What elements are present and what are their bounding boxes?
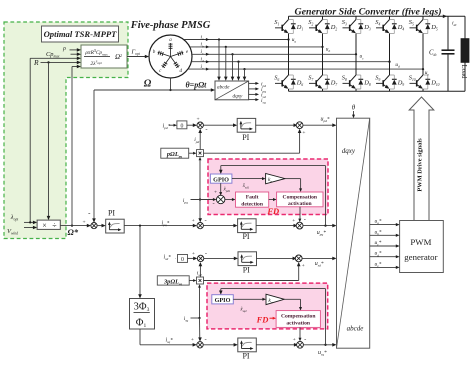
svg-text:+: + <box>302 263 305 269</box>
svg-text:x̂sq2: x̂sq2 <box>239 307 247 313</box>
wire i_pq into multiplier M1 <box>199 157 202 200</box>
node Gamma_opt torque command <box>127 49 149 59</box>
wire u_sq tap into GPIO2 <box>219 289 326 345</box>
svg-text:-: - <box>304 336 306 343</box>
resistor Load <box>460 16 469 91</box>
svg-text:PWM: PWM <box>410 237 431 247</box>
block zero reference (pd) <box>169 121 197 129</box>
wire i_pq into FD1 <box>183 198 217 205</box>
node i_sq feedback <box>184 316 202 342</box>
node u_a* converter voltage reference <box>370 219 400 227</box>
node u_c* converter voltage reference <box>370 240 400 248</box>
node Five-phase PMSG title <box>130 20 211 31</box>
wire i_pq feedback down <box>198 198 202 222</box>
junction pd decoupling sum <box>256 122 306 136</box>
transistor S4 with diode D4 (leg 4 top) <box>375 16 404 33</box>
node theta input to T2 <box>352 104 356 119</box>
transistor S5 with diode D5 (leg 5 top) <box>409 16 438 33</box>
svg-text:GPIO: GPIO <box>215 297 231 304</box>
block decoupling gain 3p*Omega*L_sq <box>157 276 196 286</box>
svg-text:x̂sd1: x̂sd1 <box>242 184 250 190</box>
node u_pq* voltage reference <box>303 224 337 237</box>
transistor S2 with diode D2 (leg 2 top) <box>308 16 337 33</box>
junction sq compensation sum <box>256 336 306 348</box>
node Omega* optimal speed <box>60 224 91 237</box>
svg-text:+: + <box>192 251 195 257</box>
svg-text:activation: activation <box>286 321 311 327</box>
wire phase current i_e <box>188 64 423 71</box>
wire i_a tap into T1 <box>217 40 221 81</box>
generator G1 five-phase PMSG machine <box>149 35 192 78</box>
node i_dc label <box>452 20 457 27</box>
wire DC+ top rail <box>289 15 466 19</box>
controller PI5 (i_sq) <box>203 338 256 360</box>
node u_sq* voltage reference <box>303 343 336 357</box>
svg-text:Fault: Fault <box>246 195 259 201</box>
block torque formula (rho*pi*R^5*Cpmax/2*lambda_opt^3 * Omega^2) <box>81 45 127 68</box>
observer GPIO2 <box>212 295 234 304</box>
wire k_a output to compensation 2 <box>284 299 302 310</box>
wire compensation 1 to pq sum <box>298 207 301 222</box>
svg-text:-: - <box>205 250 207 257</box>
node rho input <box>62 46 81 52</box>
gain k_a <box>233 294 284 313</box>
junction pd error sum <box>196 117 207 134</box>
transistor S8 with diode D8 (leg 3 bottom) <box>342 75 371 92</box>
block T2 dqxy to abcde voltage transformation <box>337 118 370 348</box>
block decoupling gain p*Omega*L_pq <box>161 148 197 158</box>
controller PI1 (speed) <box>97 209 124 233</box>
wire i_sd feedback <box>197 262 202 277</box>
svg-text:Compensation: Compensation <box>281 313 316 319</box>
svg-text:abcde: abcde <box>347 325 364 333</box>
block zero reference (sd) <box>176 255 198 263</box>
svg-text:Five-phase PMSG: Five-phase PMSG <box>130 20 211 31</box>
node u_pd* voltage reference <box>303 116 337 127</box>
junction pq error sum <box>192 217 207 228</box>
wire Omega* feed up to formula <box>71 65 81 227</box>
wire i_sq into multiplier M2 <box>198 284 201 318</box>
wire i_b tap into T1 <box>224 47 228 81</box>
block PWM generator <box>400 221 444 273</box>
node PWM Drive signals block arrow <box>409 97 434 221</box>
wire rotor speed output <box>169 78 171 91</box>
svg-text:PI: PI <box>108 209 115 218</box>
node i_pq measured current output <box>249 87 267 94</box>
svg-text:x̂pd1: x̂pd1 <box>223 187 231 193</box>
svg-text:0: 0 <box>181 257 184 263</box>
node fault-tolerance zone FD2 <box>207 283 328 329</box>
node FD1 label <box>266 206 279 216</box>
node u_sd* voltage reference <box>302 257 336 268</box>
svg-text:PI: PI <box>242 351 249 360</box>
gain k_p <box>232 173 285 189</box>
wire leg 5 midpoint / node u_e <box>422 34 430 77</box>
wire phase current i_c <box>192 49 356 56</box>
wire compensation 2 to sq sum <box>299 327 302 341</box>
wire decoupling term to sd sum <box>204 262 301 281</box>
node Generator Side Converter title <box>294 7 441 18</box>
junction speed error sum <box>82 209 97 229</box>
svg-text:Optimal TSR-MPPT: Optimal TSR-MPPT <box>44 29 118 39</box>
wire phase current i_a <box>184 34 289 41</box>
svg-text:θ=pΩt: θ=pΩt <box>186 81 208 90</box>
node Optimal TSR-MPPT title <box>42 26 119 42</box>
svg-text:+: + <box>196 117 199 123</box>
transistor S1 with diode D1 (leg 1 top) <box>274 16 303 33</box>
wire i_e tap into T1 <box>243 69 247 81</box>
wire leg 3 midpoint / node u_c <box>355 34 364 76</box>
wire x_hat estimate to sum <box>214 183 231 196</box>
node i_sd* reference <box>164 255 172 262</box>
node i_sq measured current output <box>249 98 266 105</box>
svg-text:dqxy: dqxy <box>342 147 356 155</box>
svg-text:activation: activation <box>288 201 313 207</box>
junction sq error sum <box>191 336 207 348</box>
multiplier M1 <box>197 150 204 157</box>
wire phase current i_d <box>191 57 389 64</box>
node Omega label <box>144 79 152 90</box>
svg-text:-: - <box>205 336 207 343</box>
node MPPT region (Optimal TSR-MPPT zone) <box>4 22 128 239</box>
node theta=p*Omega*t label <box>186 81 208 90</box>
svg-text:PI: PI <box>243 265 250 274</box>
controller PI3 (i_pq) <box>203 219 256 241</box>
block T1 abcde to dqxy current transformation <box>215 81 249 100</box>
svg-text:abcde: abcde <box>217 85 230 91</box>
junction sd error sum <box>192 250 207 261</box>
node Cp_max input <box>46 51 81 59</box>
wire k_p output to compensation <box>285 179 302 192</box>
wire decoupling term to pd sum <box>204 129 302 153</box>
svg-text:uc*: uc* <box>375 240 382 247</box>
svg-text:÷: ÷ <box>52 221 57 230</box>
svg-text:+: + <box>293 337 296 343</box>
wire R feed down to divider <box>47 62 51 220</box>
controller PI4 (i_sd) <box>204 252 257 275</box>
junction sd decoupling sum <box>257 255 305 269</box>
junction pq compensation sum <box>256 217 306 229</box>
svg-text:Compensation: Compensation <box>283 194 318 200</box>
svg-text:+: + <box>292 218 295 224</box>
svg-text:-: - <box>205 127 207 134</box>
wire leg 2 midpoint / node u_b <box>321 34 330 76</box>
svg-text:ue*: ue* <box>375 261 382 268</box>
svg-text:+: + <box>82 219 85 225</box>
node i_pd* reference <box>163 124 171 131</box>
svg-text:GPIO: GPIO <box>213 176 229 183</box>
transistor S7 with diode D7 (leg 2 bottom) <box>308 75 337 92</box>
svg-text:ua*: ua* <box>375 219 382 226</box>
wire leg 4 midpoint / node u_d <box>388 34 400 76</box>
wire i_d tap into T1 <box>237 62 241 81</box>
svg-text:isd*: isd* <box>164 255 172 262</box>
block Compensation activation 1 <box>269 192 323 207</box>
svg-text:isq*: isq* <box>166 337 174 344</box>
svg-text:R: R <box>33 58 39 67</box>
node u_d* converter voltage reference <box>370 251 400 259</box>
svg-text:FD: FD <box>256 314 269 324</box>
svg-text:Ω: Ω <box>144 79 152 90</box>
wire i_pq* reference <box>124 220 197 227</box>
node fault-tolerance zone FD1 <box>208 159 328 215</box>
block Compensation activation 2 <box>276 311 320 328</box>
svg-text:-: - <box>304 217 306 224</box>
node R input <box>33 58 81 67</box>
wire lambda_opt feed up to formula <box>30 57 81 223</box>
wire i_c tap into T1 <box>231 54 235 81</box>
capacitor C_dc <box>429 16 455 91</box>
svg-text:Load: Load <box>460 65 467 80</box>
svg-text:ud*: ud* <box>375 251 382 258</box>
block Fault detection <box>225 192 269 207</box>
block speed reference divider (x, /) <box>37 220 60 230</box>
svg-text:generator: generator <box>404 252 437 262</box>
svg-text:-: - <box>205 217 207 224</box>
transistor S9 with diode D9 (leg 4 bottom) <box>375 75 404 92</box>
svg-text:0: 0 <box>180 123 183 129</box>
wire i_pd feedback <box>194 129 202 150</box>
transistor S3 with diode D3 (leg 3 top) <box>342 16 371 33</box>
node i_sd measured current output <box>249 93 266 100</box>
node lambda_opt input <box>10 214 37 224</box>
node u_e* converter voltage reference <box>370 261 400 269</box>
transistor S6 with diode D6 (leg 1 bottom) <box>274 75 303 92</box>
svg-text:FD: FD <box>266 206 279 216</box>
node u_b* converter voltage reference <box>370 229 400 237</box>
node i_pd measured current output <box>249 82 267 89</box>
controller PI2 (i_pd) <box>203 118 255 141</box>
node V_wind input <box>7 226 37 236</box>
wire u_pq tap into GPIO1 <box>219 166 326 226</box>
svg-text:×: × <box>42 221 47 230</box>
svg-text:PI: PI <box>242 133 249 142</box>
node FD2 label with arrow <box>256 314 277 324</box>
wire Omega speed feedback <box>92 88 215 222</box>
svg-text:ub*: ub* <box>375 229 382 236</box>
svg-text:detection: detection <box>241 201 264 207</box>
svg-text:+: + <box>214 189 217 195</box>
svg-text:PWM Drive signals: PWM Drive signals <box>417 138 424 192</box>
svg-text:+: + <box>302 130 305 136</box>
block 3*Phi3/Phi1 gain <box>130 299 155 330</box>
wire leg 1 midpoint / node u_a <box>287 34 296 76</box>
wire phase current i_b <box>190 42 323 49</box>
wire i_sq* reference <box>140 329 197 347</box>
svg-text:ρ: ρ <box>62 46 66 52</box>
svg-text:-: - <box>213 200 215 207</box>
observer GPIO1 <box>210 174 232 183</box>
svg-text:dqxy: dqxy <box>233 93 243 99</box>
svg-text:Ω*: Ω* <box>68 227 79 237</box>
svg-text:+: + <box>192 218 195 224</box>
junction FD1 comparison <box>213 195 225 207</box>
svg-text:+: + <box>191 337 194 343</box>
multiplier M2 <box>197 277 204 284</box>
transistor S10 with diode D10 (leg 5 bottom) <box>409 75 440 92</box>
svg-text:θ: θ <box>352 104 356 112</box>
svg-text:PI: PI <box>242 232 249 241</box>
wire i_pq* into 3Phi block <box>138 226 142 299</box>
wire DC- bottom rail <box>289 90 466 92</box>
